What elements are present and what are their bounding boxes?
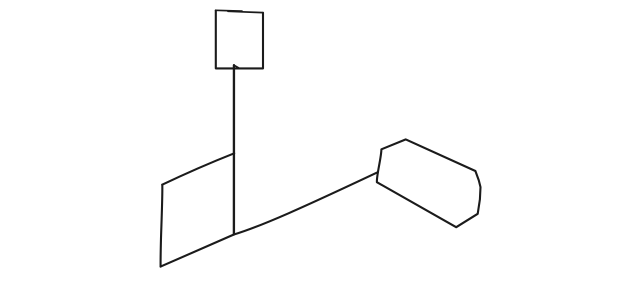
- hexagon blob: [377, 139, 481, 227]
- parallelogram left edge: [161, 185, 163, 267]
- square (top flag box: left, bottom, right edges): [216, 10, 263, 68]
- connecting curved line to hexagon: [234, 172, 378, 234]
- pole vertical line: [233, 65, 235, 234]
- square top edge stroke 1: [216, 9, 242, 12]
- parallelogram bottom edge: [161, 235, 234, 267]
- parallelogram top edge: [162, 153, 234, 184]
- arrowhead hook at pole top: [234, 65, 238, 68]
- square top edge stroke 2: [228, 11, 263, 12]
